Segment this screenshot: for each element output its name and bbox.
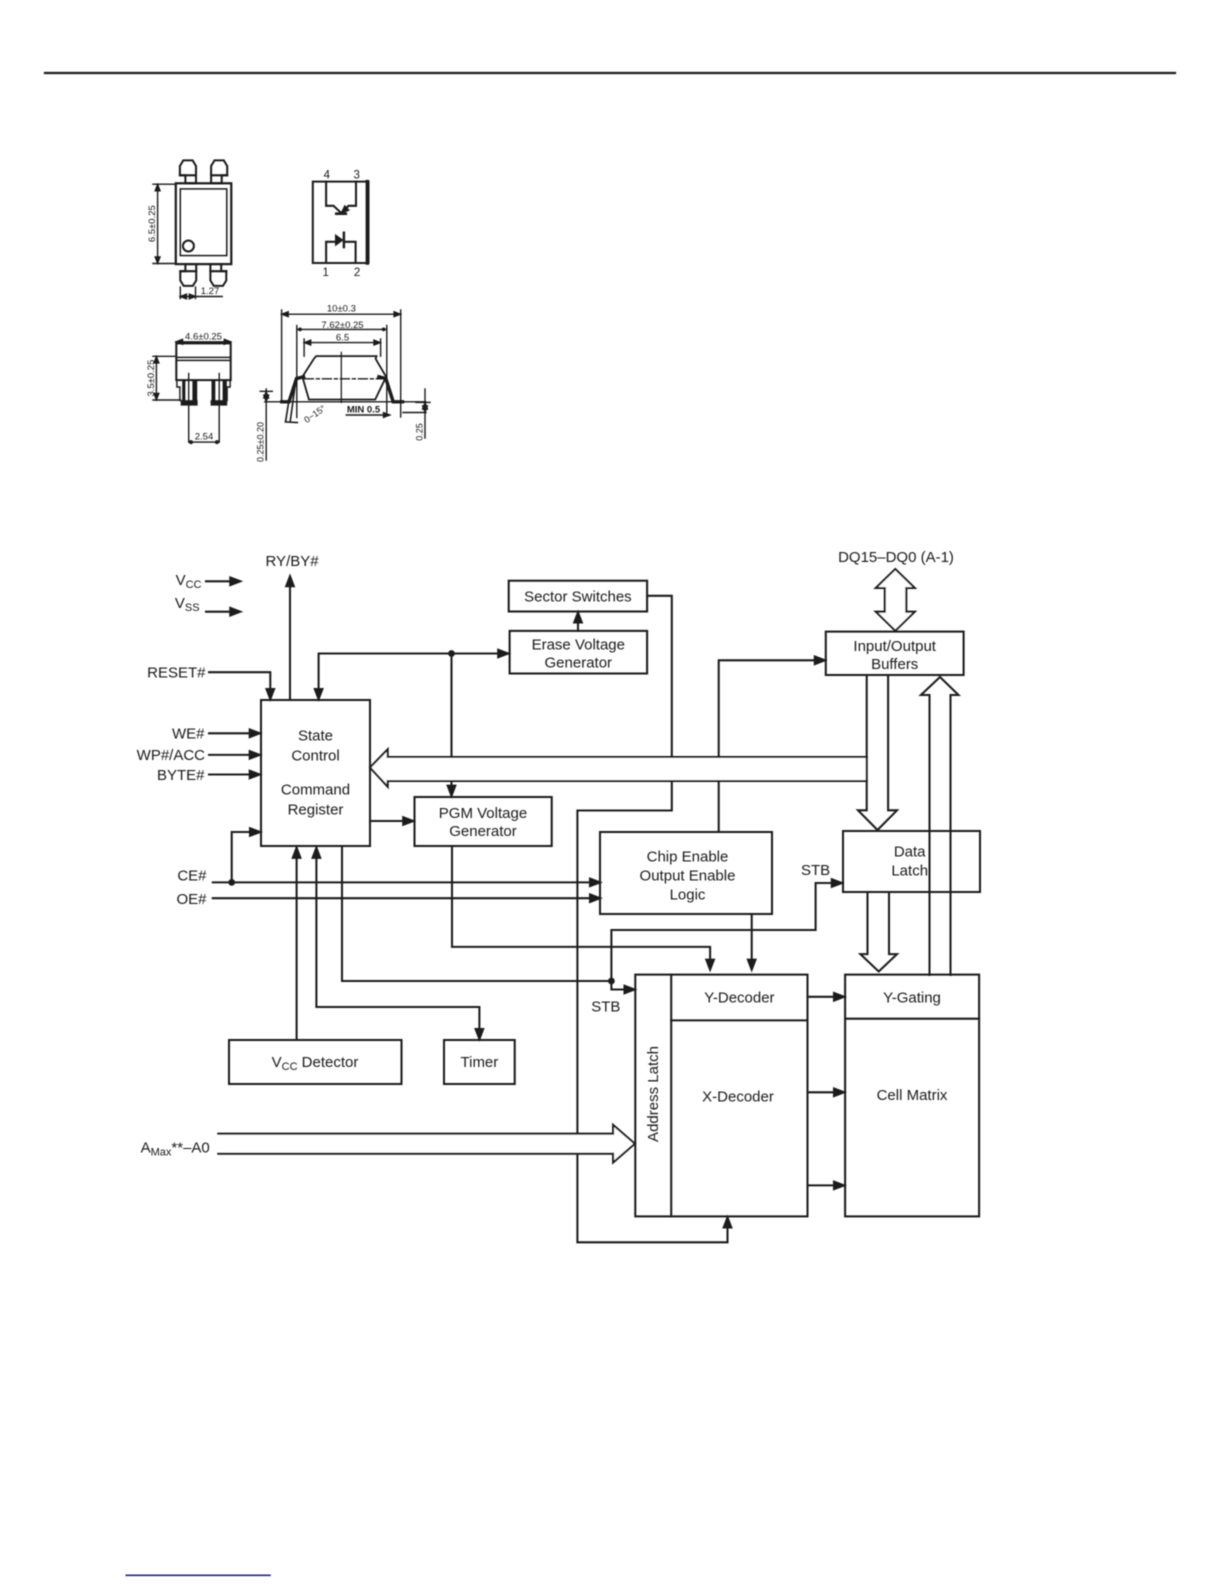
svg-text:Chip Enable: Chip Enable — [647, 849, 729, 866]
svg-text:AMax**–A0: AMax**–A0 — [141, 1140, 210, 1159]
svg-text:STB: STB — [591, 999, 620, 1016]
wire OE# input — [213, 894, 600, 902]
svg-text:Input/Output: Input/Output — [853, 638, 936, 655]
wire Sector Switches to X-Decoder (long path) — [577, 596, 731, 1243]
package front view: pin1 index circle — [183, 241, 194, 252]
svg-text:WP#/ACC: WP#/ACC — [137, 747, 206, 764]
svg-text:Control: Control — [291, 748, 339, 765]
svg-text:Data: Data — [894, 844, 926, 861]
package front view: pin 1 lead bottom-left — [180, 264, 196, 286]
wire Y-Decoder to Y-Gating — [808, 993, 845, 1001]
label BYTE# — [157, 767, 205, 784]
svg-text:10±0.3: 10±0.3 — [327, 303, 356, 314]
svg-text:Erase Voltage: Erase Voltage — [532, 637, 625, 654]
side profile: centre lines — [304, 352, 382, 402]
pin number 1 — [322, 267, 328, 279]
dimension 1.27 below front view — [180, 286, 222, 299]
label OE# — [176, 891, 207, 908]
pin number 4 — [324, 170, 331, 182]
svg-text:Address Latch: Address Latch — [645, 1046, 662, 1142]
svg-text:4: 4 — [324, 170, 331, 182]
package end view: left lead — [177, 380, 198, 406]
phototransistor symbol (pins 3-4) — [326, 182, 356, 215]
svg-text:VSS: VSS — [175, 595, 200, 614]
label VSS — [175, 595, 200, 614]
dimension 7.62±0.25 — [297, 320, 387, 418]
wire CE# input (junction dot) — [213, 879, 600, 887]
svg-text:Logic: Logic — [670, 887, 706, 904]
block Erase Voltage Generator — [510, 631, 647, 674]
wire X-Decoder to Cell Matrix (upper) — [808, 1089, 845, 1097]
package side profile view: dimension 10±0.3 — [282, 303, 401, 417]
svg-text:VCC: VCC — [176, 572, 202, 591]
svg-text:Sector Switches: Sector Switches — [524, 588, 632, 605]
wire VCC input arrow — [206, 578, 240, 586]
wire RESET# into State Control top — [209, 672, 274, 699]
dimension 3.5±0.25 — [146, 356, 181, 400]
label RY/BY# — [266, 553, 320, 570]
wire PGM Voltage Generator to Y-Decoder — [452, 846, 714, 970]
package front view: pin 3 lead top-right — [211, 160, 227, 183]
label WP#/ACC — [137, 747, 206, 764]
wire STB branch to Address Latch — [611, 981, 634, 993]
svg-text:Y-Gating: Y-Gating — [883, 989, 941, 1006]
svg-text:RESET#: RESET# — [147, 665, 206, 682]
label CE# — [177, 868, 207, 885]
svg-text:0.25: 0.25 — [414, 423, 424, 441]
package front view: body outline — [176, 183, 232, 264]
package end view: lead centre lines — [189, 374, 220, 442]
bus hollow arrow: Input/Output Buffers down to Data Latch — [858, 675, 897, 830]
side profile: seating plane — [265, 401, 426, 403]
label AMax**-A0 — [141, 1140, 210, 1159]
block VCC Detector — [229, 1040, 402, 1084]
wire BYTE# into State Control — [209, 771, 260, 779]
package front view: pin 2 lead bottom-right — [210, 264, 226, 286]
label WE# — [172, 726, 205, 743]
block PGM Voltage Generator — [415, 797, 552, 846]
wire WP#/ACC into State Control — [209, 751, 260, 759]
wire VCC Detector up to State Control — [293, 848, 301, 1040]
wire X-Decoder to Cell Matrix (lower) — [808, 1182, 845, 1190]
dimension 6.5 — [304, 333, 381, 357]
bus hollow arrow: AMax**-A0 address bus into Address Latch — [218, 1125, 635, 1163]
svg-text:WE#: WE# — [172, 726, 205, 743]
svg-text:DQ15–DQ0 (A-1): DQ15–DQ0 (A-1) — [838, 549, 954, 566]
wire State Control / Timer link — [313, 848, 484, 1039]
block Input/Output Buffers — [826, 632, 964, 675]
svg-text:6.5±0.25: 6.5±0.25 — [147, 205, 158, 242]
wire Chip Enable Logic to Input/Output Buffers — [719, 657, 825, 833]
side profile: right gull-wing lead — [379, 377, 403, 402]
wire WE# into State Control — [209, 730, 260, 738]
dimension 0.25 (lead thickness, right) — [403, 389, 430, 441]
wire top horizontal rule — [45, 72, 1175, 74]
label STB (address latch strobe) — [591, 999, 620, 1016]
svg-text:1.27: 1.27 — [201, 286, 220, 297]
svg-text:0~15°: 0~15° — [302, 403, 328, 425]
pin number 3 — [353, 170, 359, 182]
svg-text:X-Decoder: X-Decoder — [702, 1089, 774, 1106]
svg-text:STB: STB — [801, 862, 830, 879]
svg-text:MIN 0.5: MIN 0.5 — [347, 405, 381, 416]
svg-text:State: State — [298, 728, 333, 745]
svg-text:Cell Matrix: Cell Matrix — [877, 1087, 948, 1104]
wire Erase junction down to PGM Voltage Generator — [448, 654, 456, 796]
dimension 0.25±0.20 (standoff, left) — [256, 389, 273, 462]
dimension MIN 0.5 — [346, 405, 389, 418]
svg-text:Y-Decoder: Y-Decoder — [704, 989, 774, 1006]
label VCC — [176, 572, 202, 591]
block Chip Enable Output Enable Logic — [600, 832, 772, 914]
wire Chip Enable Logic down to Y-Decoder — [748, 915, 756, 970]
block Data Latch — [843, 831, 980, 892]
svg-text:Generator: Generator — [545, 655, 613, 672]
svg-text:CE#: CE# — [177, 868, 207, 885]
package schematic top view: body outline — [313, 182, 369, 263]
bus hollow arrow: Y-Gating up to Input/Output Buffers — [921, 677, 959, 975]
block State Control / Command Register — [261, 700, 370, 846]
svg-text:BYTE#: BYTE# — [157, 767, 205, 784]
package end view: right lead — [211, 380, 231, 406]
package end view: dimension 4.6±0.25 — [176, 332, 231, 345]
svg-text:Generator: Generator — [449, 823, 517, 840]
bus hollow arrow: command data to State Control — [370, 749, 867, 786]
svg-text:RY/BY#: RY/BY# — [266, 553, 320, 570]
svg-text:2.54: 2.54 — [195, 432, 214, 443]
svg-text:Buffers: Buffers — [871, 656, 918, 673]
svg-text:Timer: Timer — [461, 1054, 499, 1071]
wire Erase Voltage Generator to Sector Switches — [574, 613, 582, 631]
bus hollow arrow: Data Latch down to Y-Gating — [860, 892, 897, 972]
wire CE# branch up into State Control — [232, 828, 260, 882]
block Address Latch / Y-Decoder / X-Decoder — [635, 975, 807, 1217]
wire VSS input arrow — [206, 608, 240, 616]
svg-text:3: 3 — [353, 170, 359, 182]
wire bottom blue separator line — [126, 1574, 270, 1576]
package front view: pin 4 lead top-left — [180, 160, 196, 183]
block Y-Gating / Cell Matrix — [845, 975, 979, 1217]
svg-text:3.5±0.25: 3.5±0.25 — [146, 360, 157, 397]
wire STB branch to Data Latch — [611, 879, 841, 981]
svg-text:Output Enable: Output Enable — [640, 868, 736, 885]
label RESET# — [147, 665, 206, 682]
wire State Control / Erase Voltage Generator link (node at 451.5,653.5) — [315, 650, 508, 699]
wire RY/BY# output from State Control — [286, 576, 294, 700]
block Timer — [444, 1040, 515, 1084]
wire STB net from State Control bottom (junction at 611.4,981) — [342, 846, 615, 984]
svg-text:Latch: Latch — [891, 863, 928, 880]
svg-text:4.6±0.25: 4.6±0.25 — [185, 332, 222, 343]
bus hollow arrow: DQ15-DQ0 bidirectional at Input/Output Buffers — [876, 569, 915, 631]
svg-text:2: 2 — [354, 267, 360, 279]
svg-text:OE#: OE# — [176, 891, 207, 908]
side profile: body outline — [302, 356, 386, 399]
dimension 6.5±0.25 left of front view — [147, 184, 176, 263]
dimension 2.54 — [189, 432, 220, 445]
svg-text:Register: Register — [288, 802, 344, 819]
wire State Control to PGM Voltage Generator — [370, 817, 413, 825]
pin number 2 — [354, 267, 360, 279]
block Sector Switches — [509, 581, 647, 612]
side profile: left gull-wing lead — [282, 377, 304, 423]
package end view: body — [176, 343, 230, 380]
LED symbol (pins 1-2) — [326, 233, 356, 263]
svg-text:0.25±0.20: 0.25±0.20 — [256, 422, 266, 462]
label DQ15-DQ0 (A-1) — [838, 549, 954, 566]
label STB (data latch strobe) — [801, 862, 830, 879]
svg-text:PGM Voltage: PGM Voltage — [439, 805, 527, 822]
svg-text:Command: Command — [281, 782, 350, 799]
label 0~15 degrees — [302, 403, 328, 425]
svg-text:1: 1 — [322, 267, 328, 279]
svg-text:VCC Detector: VCC Detector — [272, 1054, 359, 1073]
